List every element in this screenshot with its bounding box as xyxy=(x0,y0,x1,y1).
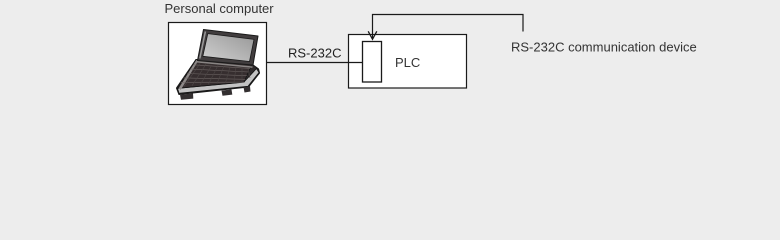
lid left side thickness xyxy=(200,32,206,59)
laptop lid xyxy=(198,30,259,66)
keyboard column gaps xyxy=(184,64,250,87)
laptop base silhouette xyxy=(177,60,260,95)
keyboard row gaps xyxy=(181,65,250,83)
laptop keyboard deck xyxy=(178,60,252,89)
svg-text:RS-232C: RS-232C xyxy=(288,46,341,61)
PLC box xyxy=(349,35,467,89)
deck left gray margin xyxy=(179,60,199,90)
laptop screen xyxy=(203,34,254,62)
svg-text:RS-232C communication device: RS-232C communication device xyxy=(511,39,697,54)
laptop front+right light strip xyxy=(178,69,260,94)
svg-text:Personal computer: Personal computer xyxy=(165,1,275,16)
wire arrow feed (from device down into module) xyxy=(373,15,524,39)
svg-text:PLC: PLC xyxy=(395,55,420,70)
hinge gray band xyxy=(197,62,253,67)
wire RS-232C (PC to PLC module) xyxy=(267,62,363,64)
arrowhead xyxy=(368,31,377,39)
personal computer box xyxy=(169,23,267,105)
laptop clip-art xyxy=(177,30,260,100)
laptop feet xyxy=(180,93,193,99)
RS-232C interface module (small rect) xyxy=(363,42,382,83)
